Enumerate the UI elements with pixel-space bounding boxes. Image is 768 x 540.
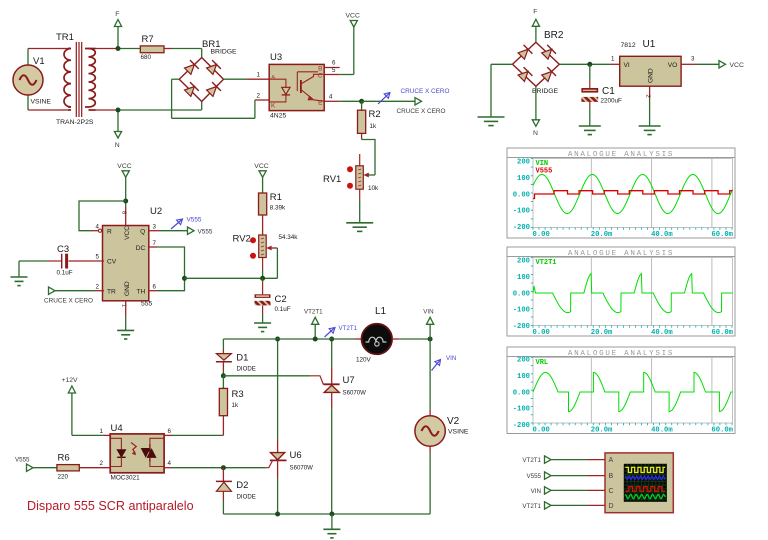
svg-text:VIN: VIN: [446, 355, 456, 362]
svg-text:1: 1: [100, 428, 104, 435]
junction dot VCC 555: [123, 199, 128, 204]
svg-text:20.0m: 20.0m: [591, 427, 613, 435]
svg-text:BRIDGE: BRIDGE: [211, 49, 238, 56]
svg-text:2: 2: [257, 93, 261, 100]
wire gate U7: [223, 376, 323, 385]
svg-text:1: 1: [611, 56, 615, 63]
svg-text:VCC: VCC: [254, 163, 268, 170]
svg-text:200: 200: [517, 357, 530, 365]
svg-text:F: F: [533, 9, 537, 16]
svg-text:VIN: VIN: [531, 488, 541, 495]
svg-text:4: 4: [329, 93, 333, 100]
svg-text:5: 5: [96, 254, 100, 261]
ground (bottom rail): [323, 529, 340, 538]
svg-text:VCC: VCC: [730, 62, 744, 69]
scope input B (V555): [527, 472, 605, 480]
svg-text:-200: -200: [513, 224, 530, 232]
svg-text:S6070W: S6070W: [290, 465, 314, 472]
svg-text:VSINE: VSINE: [31, 99, 52, 106]
junction dot U6 top: [275, 337, 280, 342]
wire secondary bottom rail: [96, 102, 202, 111]
svg-text:-100: -100: [513, 307, 530, 315]
svg-text:0.00: 0.00: [513, 290, 530, 298]
svg-text:CRUCE X CERO: CRUCE X CERO: [44, 298, 93, 305]
terminal N (BR2): [532, 86, 539, 137]
svg-text:L1: L1: [375, 306, 387, 317]
top rail: [223, 338, 354, 340]
svg-text:V555: V555: [536, 168, 553, 176]
svg-text:100: 100: [517, 175, 530, 183]
svg-text:Disparo 555 SCR antiparalelo: Disparo 555 SCR antiparalelo: [27, 499, 194, 513]
svg-text:B: B: [609, 473, 614, 480]
svg-text:4N25: 4N25: [270, 113, 286, 120]
scope input C (VIN): [531, 487, 605, 495]
svg-text:TH: TH: [137, 288, 146, 295]
svg-text:4: 4: [168, 460, 172, 467]
svg-text:60.0m: 60.0m: [711, 231, 733, 239]
svg-text:VO: VO: [668, 62, 678, 69]
svg-text:S6070W: S6070W: [343, 390, 367, 397]
svg-text:V555: V555: [198, 228, 213, 235]
terminal N: [114, 110, 121, 149]
regulator U1 7812: [620, 39, 681, 86]
transformer TR1: [56, 32, 96, 126]
svg-text:6: 6: [168, 428, 172, 435]
resistor R6: [57, 453, 110, 481]
svg-text:R7: R7: [142, 34, 154, 45]
svg-text:200: 200: [517, 258, 530, 266]
svg-text:VT2T1: VT2T1: [522, 503, 541, 510]
junction dot VT2T1: [313, 337, 318, 342]
junction dot bottom U6: [275, 512, 280, 517]
svg-text:7812: 7812: [621, 42, 636, 49]
power terminal VCC (U2): [117, 163, 131, 226]
svg-text:1k: 1k: [370, 123, 378, 130]
wire RV2 wiper down: [276, 248, 278, 278]
svg-text:U3: U3: [270, 52, 282, 63]
ground (BR2): [478, 117, 505, 126]
svg-text:CV: CV: [107, 259, 117, 266]
svg-text:-100: -100: [513, 208, 530, 216]
svg-text:R6: R6: [58, 453, 70, 464]
capacitor C3: [19, 244, 104, 277]
svg-text:F: F: [115, 11, 119, 18]
lamp L1: [355, 306, 400, 364]
diode D2: [216, 468, 256, 514]
svg-text:V2: V2: [447, 416, 460, 427]
terminal F (BR2): [532, 9, 539, 43]
svg-text:VCC: VCC: [124, 226, 131, 240]
junction node CRUCE X CERO: [359, 99, 364, 104]
svg-text:C3: C3: [57, 244, 69, 255]
wire U4 pin6 to R3: [164, 416, 223, 436]
svg-text:0.00: 0.00: [513, 389, 530, 397]
svg-text:1: 1: [257, 72, 261, 79]
svg-text:V555: V555: [527, 473, 542, 480]
power terminal VCC (U3): [340, 13, 360, 75]
svg-text:Q: Q: [140, 228, 145, 235]
input terminal V555: [15, 457, 57, 472]
potentiometer RV1: [323, 154, 379, 223]
svg-text:V555: V555: [187, 217, 202, 224]
capacitor C1: [581, 64, 622, 126]
svg-text:1k: 1k: [232, 402, 240, 409]
U3 pin4 wire to node: [324, 93, 361, 101]
wire ground stub: [331, 514, 333, 529]
svg-text:R2: R2: [369, 109, 381, 120]
svg-text:8.39k: 8.39k: [270, 205, 286, 212]
potentiometer RV2: [233, 234, 299, 279]
wire BR1 right to U3 pin1: [224, 72, 270, 80]
svg-text:555: 555: [141, 301, 153, 308]
svg-text:A: A: [609, 457, 614, 464]
svg-text:0.00: 0.00: [533, 427, 550, 435]
svg-text:VT2T1: VT2T1: [304, 309, 323, 316]
wire BR2 left to ground: [491, 64, 513, 117]
svg-text:40.0m: 40.0m: [651, 329, 673, 337]
svg-text:DIODE: DIODE: [237, 365, 256, 372]
junction dot DC-TH: [182, 276, 187, 281]
bottom rail: [223, 513, 430, 515]
graph ANALOGUE ANALYSIS 2 (VT2T1): [507, 247, 735, 337]
svg-text:GND: GND: [124, 281, 131, 296]
svg-text:6: 6: [153, 283, 157, 290]
svg-text:U6: U6: [290, 450, 302, 461]
svg-text:VT2T1: VT2T1: [339, 325, 358, 332]
junction dot C1: [587, 62, 592, 67]
graph ANALOGUE ANALYSIS 1 (VIN/V555): [507, 148, 735, 239]
svg-text:C2: C2: [275, 294, 287, 305]
U3 pin6 stub: [324, 60, 340, 68]
oscilloscope module: [605, 453, 673, 513]
terminal F: [114, 11, 121, 49]
svg-text:N: N: [533, 130, 538, 137]
svg-text:VI: VI: [624, 62, 630, 69]
wire reset branch: [79, 201, 126, 231]
svg-text:10k: 10k: [368, 185, 379, 192]
junction dot bottom U7: [329, 512, 334, 517]
svg-text:40.0m: 40.0m: [651, 231, 673, 239]
probe VIN: [432, 355, 457, 371]
junction dot VIN: [428, 337, 433, 342]
svg-text:60.0m: 60.0m: [711, 427, 733, 435]
wire secondary top / node: [96, 48, 141, 50]
svg-text:TRAN-2P2S: TRAN-2P2S: [56, 119, 94, 126]
wire to RV2 node: [185, 277, 278, 279]
U3 pin5 wire: [324, 67, 340, 75]
svg-text:R3: R3: [232, 389, 244, 400]
svg-text:60.0m: 60.0m: [711, 329, 733, 337]
svg-text:-100: -100: [513, 406, 530, 414]
svg-text:VIN: VIN: [423, 309, 433, 316]
svg-text:VCC: VCC: [346, 13, 360, 20]
svg-text:VRL: VRL: [536, 359, 549, 367]
schematic caption: [27, 499, 194, 513]
voltage source V2: [415, 339, 469, 514]
ground (U2): [117, 330, 134, 339]
voltage source V1: [13, 49, 51, 111]
terminal VIN: [423, 309, 433, 340]
svg-text:VSINE: VSINE: [448, 429, 469, 436]
svg-text:0.1uF: 0.1uF: [57, 270, 73, 277]
wire Q output: [148, 230, 188, 232]
svg-text:8: 8: [121, 211, 127, 214]
wire DC to TH loop: [148, 247, 185, 291]
ground (RV1): [346, 223, 373, 232]
junction dot C2: [260, 276, 265, 281]
svg-text:20.0m: 20.0m: [591, 329, 613, 337]
svg-text:100: 100: [517, 274, 530, 282]
wire to CRUCE X CERO terminal: [362, 100, 415, 102]
svg-text:D2: D2: [236, 480, 248, 491]
svg-text:0.00: 0.00: [533, 329, 550, 337]
svg-text:200: 200: [517, 159, 530, 167]
svg-text:CRUCE X CERO: CRUCE X CERO: [401, 88, 450, 95]
capacitor C2: [255, 278, 291, 323]
probe CRUCE X CERO: [378, 88, 450, 104]
svg-text:U7: U7: [343, 375, 355, 386]
svg-text:3: 3: [153, 223, 157, 230]
svg-text:20.0m: 20.0m: [591, 231, 613, 239]
terminal VT2T1: [304, 309, 323, 340]
U1 output pin3: [681, 56, 719, 65]
bridge rectifier BR2: [513, 30, 564, 95]
bridge rectifier BR1: [179, 39, 237, 102]
wire 555 ground pin: [125, 300, 127, 330]
resistor R1: [259, 192, 287, 235]
svg-text:A: A: [271, 75, 276, 82]
svg-text:D1: D1: [236, 353, 248, 364]
svg-text:CRUCE X CERO: CRUCE X CERO: [397, 108, 446, 115]
svg-text:TR: TR: [107, 288, 116, 295]
junction dot gate/D2: [221, 465, 226, 470]
junction dot bottom: [116, 108, 121, 113]
svg-text:U2: U2: [150, 206, 162, 217]
svg-text:0.00: 0.00: [513, 191, 530, 199]
svg-text:VT2T1: VT2T1: [536, 259, 557, 267]
svg-text:DIODE: DIODE: [237, 493, 256, 500]
wire U4 pin4 gate line: [164, 467, 266, 469]
ground (U1): [639, 126, 661, 135]
svg-text:120V: 120V: [356, 357, 372, 364]
svg-text:+12V: +12V: [62, 377, 79, 384]
svg-text:4: 4: [96, 223, 100, 230]
svg-text:2: 2: [100, 460, 104, 467]
graph ANALOGUE ANALYSIS 3 (VRL): [507, 347, 735, 435]
svg-text:2200uF: 2200uF: [601, 98, 623, 105]
svg-text:5: 5: [332, 67, 336, 74]
svg-text:2: 2: [645, 95, 651, 98]
svg-text:N: N: [115, 142, 120, 149]
svg-text:RV2: RV2: [233, 234, 251, 245]
svg-text:V1: V1: [33, 56, 45, 67]
svg-text:100: 100: [517, 373, 530, 381]
svg-text:U1: U1: [643, 39, 656, 50]
svg-text:E: E: [318, 99, 323, 106]
resistor R3: [219, 376, 243, 416]
SCR U6: [266, 339, 313, 514]
svg-text:VT2T1: VT2T1: [522, 457, 541, 464]
svg-text:K: K: [271, 103, 276, 110]
svg-text:0.00: 0.00: [533, 231, 550, 239]
wire R2 to RV1 wiper: [362, 140, 375, 176]
optocoupler U3: [269, 52, 324, 120]
svg-text:2: 2: [96, 283, 100, 290]
probe V555: [171, 217, 202, 230]
svg-text:DC: DC: [136, 245, 146, 252]
wire R7 to BR1: [164, 49, 202, 58]
svg-text:V555: V555: [15, 457, 30, 464]
resistor R7: [140, 34, 164, 61]
wire BR1 left loop to U3 pin2: [172, 79, 269, 118]
svg-text:U4: U4: [111, 423, 123, 434]
svg-text:TR1: TR1: [56, 32, 74, 43]
junction dot D1: [221, 373, 226, 378]
svg-text:VCC: VCC: [117, 163, 131, 170]
svg-text:C: C: [318, 72, 323, 79]
svg-text:3: 3: [691, 56, 695, 63]
power terminal +12V: [62, 377, 111, 435]
svg-text:C1: C1: [602, 86, 615, 97]
ground (C3): [11, 277, 28, 286]
wire L1 to VIN node: [400, 338, 430, 340]
svg-text:0.1uF: 0.1uF: [275, 306, 291, 313]
svg-text:MOC3021: MOC3021: [111, 475, 141, 482]
timer U2 555: [96, 206, 163, 308]
svg-text:40.0m: 40.0m: [651, 427, 673, 435]
junction dot U7 top: [329, 337, 334, 342]
wire V1 to TR1 primary: [28, 49, 68, 111]
svg-text:54.34k: 54.34k: [279, 234, 299, 241]
svg-text:R: R: [107, 228, 112, 235]
svg-text:220: 220: [58, 474, 69, 481]
svg-text:7: 7: [153, 240, 157, 247]
svg-text:R1: R1: [270, 192, 282, 203]
svg-text:C: C: [609, 488, 614, 495]
optocoupler U4 MOC3021: [100, 423, 172, 482]
diode D1: [216, 339, 256, 376]
scope input A (VT2T1): [522, 456, 605, 464]
wire BR2 right: [559, 56, 619, 65]
scope input D (VT2T1): [522, 502, 605, 510]
input terminal CRUCE X CERO: [44, 287, 104, 305]
resistor R2: [358, 101, 381, 139]
probe VT2T1: [325, 325, 358, 337]
U1 ground pin: [645, 86, 651, 126]
power terminal VCC (R1): [254, 163, 268, 193]
svg-text:680: 680: [141, 54, 152, 61]
svg-text:BR2: BR2: [544, 30, 564, 41]
output terminal V555: [188, 227, 213, 235]
svg-text:-200: -200: [513, 323, 530, 331]
output terminal VCC: [719, 61, 744, 69]
svg-text:GND: GND: [648, 68, 655, 83]
output terminal CRUCE X CERO: [397, 98, 446, 115]
junction dot top: [116, 46, 121, 51]
svg-text:RV1: RV1: [323, 174, 341, 185]
ground (C1): [579, 126, 601, 135]
SCR U7: [323, 339, 366, 514]
svg-text:6: 6: [332, 60, 336, 67]
svg-text:-200: -200: [513, 422, 530, 430]
svg-text:D: D: [609, 503, 614, 510]
ground (C2): [254, 323, 271, 332]
